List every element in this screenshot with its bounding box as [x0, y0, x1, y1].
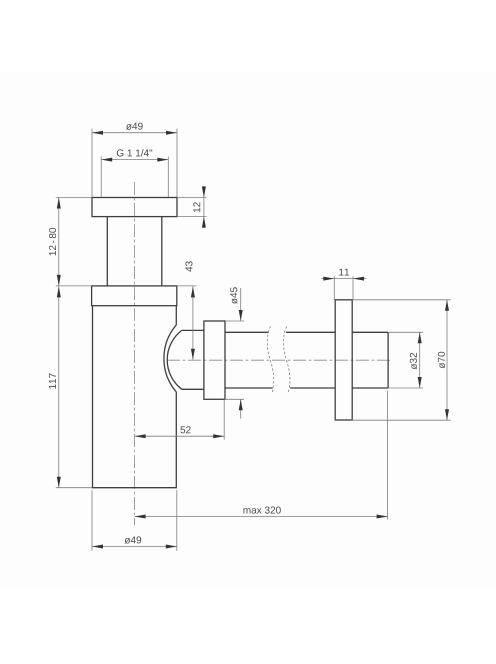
dimension 43: upper arrowhead — [191, 286, 195, 297]
top flange (rosette) — [92, 198, 177, 217]
outlet pipe end cap — [387, 332, 389, 388]
dimension ø32: upper arrowhead — [418, 332, 422, 343]
dimension G 1 1/4": label — [117, 149, 152, 156]
dimension 12 right: bottom extension line — [177, 216, 207, 218]
dimension ø70: top extension line — [352, 299, 450, 301]
dimension 43: lower arrowhead — [191, 349, 195, 360]
dimension ø32: dimension line — [419, 332, 421, 388]
body rim (upper ring of cup) — [92, 286, 177, 306]
dimension G 1 1/4": left arrowhead — [101, 158, 112, 162]
dimension 12 right: lower arrowhead — [202, 217, 206, 228]
dimension 11: right extension line — [352, 276, 354, 300]
dimension 11: label — [339, 269, 349, 276]
dimension ø45: lower dimension line — [240, 399, 242, 418]
dimension max 320: left arrowhead — [135, 515, 146, 519]
dimension max 320: dimension line — [135, 516, 388, 518]
dimension 11: left arrowhead (outside, pointing right) — [323, 277, 334, 281]
dimension ø32: lower arrowhead — [418, 377, 422, 388]
compression nut — [204, 321, 225, 399]
dimension ø45: bottom extension line — [225, 398, 244, 400]
dimension ø49 bottom: right extension line — [176, 490, 178, 551]
dimension 12 - 80 left: dimension line — [58, 198, 60, 286]
dimension ø49 bottom: right arrowhead — [166, 545, 177, 549]
dimension 43: label — [185, 261, 192, 271]
dimension ø49 bottom: left arrowhead — [92, 545, 103, 549]
dimension ø49 bottom: label — [125, 536, 142, 543]
dimension 12 right: upper arrowhead — [202, 187, 206, 198]
outlet pipe top edge segments — [225, 331, 388, 333]
dimension ø49 top: left extension line — [91, 129, 93, 198]
dimension 11: left extension line — [333, 276, 335, 300]
dimension 52: right extension line — [223, 399, 225, 439]
dimension max 320: right arrowhead — [377, 515, 388, 519]
vertical centerline of trap body — [134, 182, 136, 525]
faint drawing-area background band — [0, 72, 496, 588]
dimension 12 - 80 left: top extension line — [56, 197, 92, 199]
dimension ø70: bottom extension line — [352, 419, 450, 421]
dimension G 1 1/4": right extension line — [167, 157, 169, 198]
dimension max 320: label — [243, 507, 280, 514]
shared extension line rim top (12-80 bottom / 117 top) — [56, 285, 92, 287]
dimension ø70: lower arrowhead — [445, 409, 449, 420]
dimension 52: right arrowhead — [213, 434, 224, 438]
extension line rim top to 43 dimension — [177, 285, 197, 287]
dimension ø49 top: right extension line — [176, 129, 178, 198]
dimension ø49 top: left arrowhead — [92, 131, 103, 135]
dimension 117: lower arrowhead — [57, 477, 61, 488]
dimension ø32: bottom extension line — [388, 387, 423, 389]
dimension 12 right: label — [193, 202, 200, 212]
dimension ø49 bottom: dimension line — [92, 546, 177, 548]
dimension ø70: dimension line — [446, 300, 448, 420]
dimension ø45: label — [230, 287, 237, 304]
dimension 12 - 80 left: upper arrowhead — [57, 198, 61, 209]
inlet tube between flange and body rim — [107, 217, 162, 286]
outlet bulge outer arc — [164, 325, 176, 392]
outlet bulge inner arc — [167, 330, 182, 389]
dimension ø45: upper arrowhead — [239, 310, 243, 321]
dimension G 1 1/4": right arrowhead — [157, 158, 168, 162]
dimension 117: upper arrowhead — [57, 286, 61, 297]
dimension ø49 top: label — [126, 123, 143, 130]
dimension ø32: top extension line — [388, 331, 423, 333]
dimension ø45: upper dimension line — [240, 288, 242, 321]
dimension ø32: label — [410, 353, 417, 370]
outlet neck bottom line — [182, 388, 204, 390]
dimension 117: dimension line — [58, 286, 60, 488]
dimension 12 right: top extension line — [177, 197, 207, 199]
pipe break right wavy line — [283, 326, 289, 393]
trap body (cup) with outlet bulge — [93, 306, 177, 488]
dimension 117: label — [49, 373, 56, 388]
dimension ø45: lower arrowhead — [239, 399, 243, 410]
dimension 52: label — [180, 426, 190, 433]
dimension 11: right arrowhead (outside, pointing left) — [353, 277, 364, 281]
dimension 12 right: dimension line — [203, 186, 205, 228]
dimension 117: bottom extension line — [56, 487, 93, 489]
dimension 52: left arrowhead — [135, 434, 146, 438]
dimension 11: dimension line — [321, 278, 366, 280]
dimension ø70: upper arrowhead — [445, 300, 449, 311]
dimension G 1 1/4": dimension line — [101, 159, 168, 161]
dimension ø49 top: right arrowhead — [166, 131, 177, 135]
dimension ø49 top: dimension line — [92, 132, 177, 134]
horizontal centerline of outlet pipe — [167, 359, 392, 361]
dimension 12 - 80 left: label — [49, 228, 56, 255]
outlet pipe bottom edge segments — [225, 387, 388, 389]
dimension ø45: top extension line — [225, 320, 244, 322]
dimension 52: dimension line — [135, 435, 225, 437]
dimension max 320: right extension line — [387, 391, 389, 520]
dimension ø49 bottom: left extension line — [91, 490, 93, 551]
dimension G 1 1/4": left extension line — [100, 157, 102, 198]
pipe break left wavy line — [267, 326, 273, 393]
wall flange (rosette) — [335, 300, 352, 420]
outlet neck top line — [182, 329, 204, 331]
dimension 43: dimension line — [192, 286, 194, 360]
dimension 12 - 80 left: lower arrowhead — [57, 275, 61, 286]
dimension ø70: label — [438, 352, 445, 369]
